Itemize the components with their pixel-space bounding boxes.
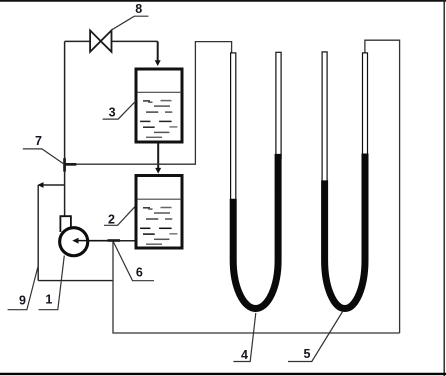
label 1 xyxy=(39,256,65,310)
label 3 xyxy=(103,101,136,119)
label 4 xyxy=(233,313,255,362)
tank 2 xyxy=(136,176,182,249)
junction 6 tick xyxy=(108,239,121,242)
border frame right xyxy=(443,0,445,376)
manometer 4 right glass tube (sealed) xyxy=(276,52,281,158)
label 9 xyxy=(8,266,38,310)
manometer 5 right glass tube xyxy=(363,53,368,158)
svg-text:4: 4 xyxy=(241,348,248,362)
wire branch y185 with left arrow xyxy=(44,184,65,186)
pump P1 xyxy=(60,216,110,256)
svg-text:2: 2 xyxy=(108,213,115,227)
svg-text:6: 6 xyxy=(136,266,143,280)
border frame top xyxy=(0,0,446,2)
label 7 xyxy=(23,134,64,164)
wire right riser and top run to manometer5 right tube xyxy=(365,40,400,333)
wire valve inlet horizontal xyxy=(65,40,91,42)
wire left loop bottom y280 xyxy=(38,280,113,282)
svg-text:3: 3 xyxy=(109,106,116,120)
manometer 5 fluid U column xyxy=(325,154,365,309)
wire junction7 to manometer4 left tube xyxy=(65,42,232,165)
tank 3 liquid dashes xyxy=(140,101,177,138)
wire tank3 bottom to tank2 top xyxy=(157,144,159,170)
manometer 5 left glass tube (sealed) xyxy=(322,52,327,185)
svg-text:7: 7 xyxy=(35,134,42,148)
arrow into tank 3 xyxy=(155,60,161,66)
arrow into tank 2 xyxy=(155,168,161,174)
label 6 xyxy=(113,242,154,281)
wire left loop vertical x38 xyxy=(37,185,39,281)
manometer 4 left glass tube xyxy=(231,53,236,203)
wire valve outlet to tank3 elbow xyxy=(111,40,157,42)
manometer 4 fluid U column xyxy=(233,154,278,309)
valve V8 xyxy=(90,30,111,51)
wire left vertical from valve to pump xyxy=(64,41,66,216)
wire pump suction from tank2 xyxy=(79,240,135,242)
svg-text:8: 8 xyxy=(135,2,142,16)
junction 7 tick xyxy=(63,158,76,171)
svg-text:5: 5 xyxy=(304,347,311,361)
label 5 xyxy=(288,312,343,362)
border frame bottom xyxy=(0,373,446,375)
svg-text:9: 9 xyxy=(19,293,26,307)
svg-text:1: 1 xyxy=(45,293,52,307)
label 2 xyxy=(104,207,135,227)
arrow left at x38 xyxy=(37,182,43,188)
tank 2 liquid dashes xyxy=(140,208,177,245)
wire junction6 down and bottom long run xyxy=(113,241,400,333)
tank 3 xyxy=(136,69,182,142)
label 8 xyxy=(111,2,149,31)
